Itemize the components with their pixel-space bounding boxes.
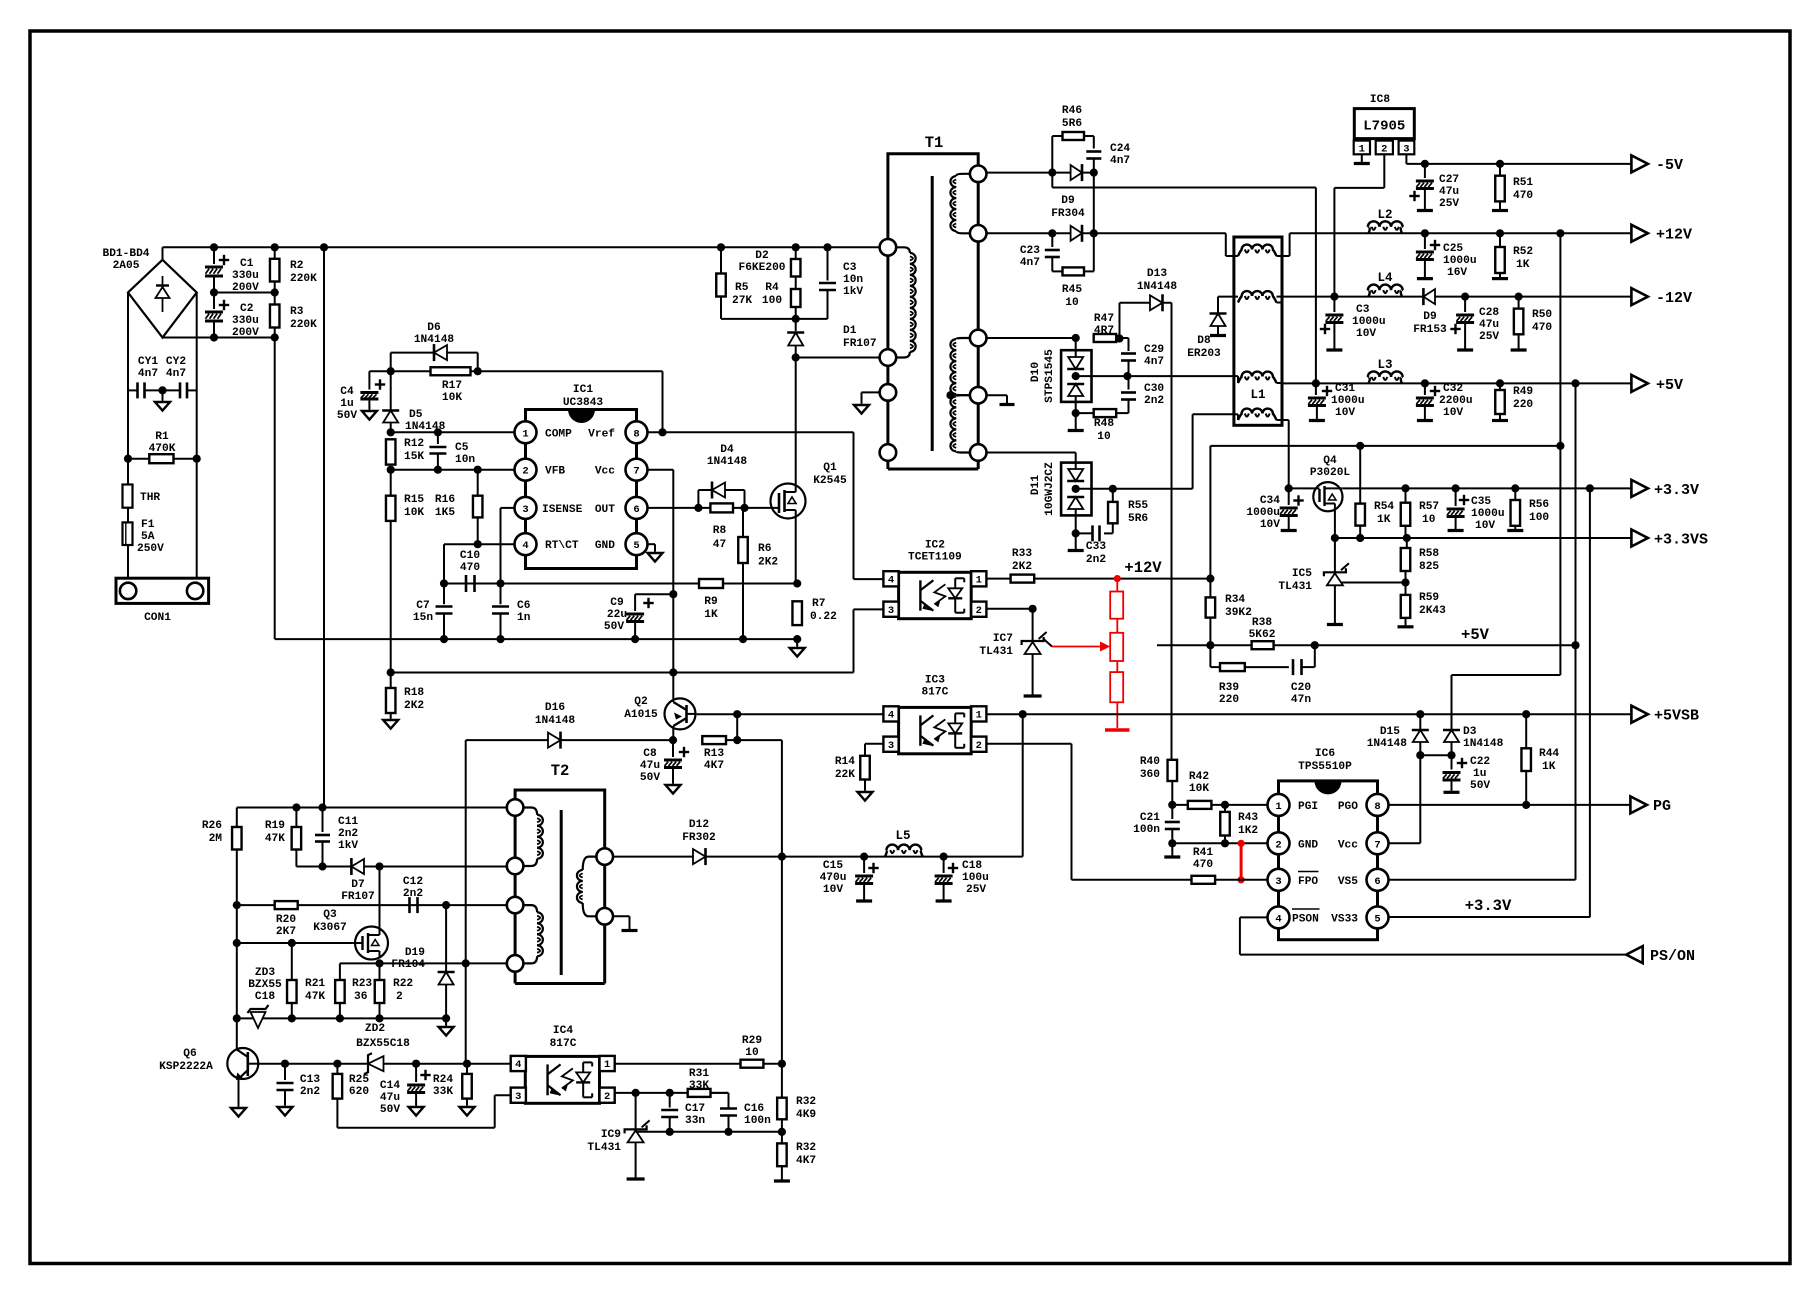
diode D7 FR107 [351,859,364,874]
resistor R38 5K62 [1252,641,1274,649]
svg-text:C7: C7 [416,600,429,612]
svg-text:36: 36 [354,991,368,1003]
svg-text:RT\CT: RT\CT [545,540,579,552]
junction R43 bottom [1221,839,1229,847]
svg-text:COMP: COMP [545,428,572,440]
svg-text:2n2: 2n2 [338,828,358,840]
IC8 pin 1 box [1354,141,1370,155]
svg-text:16V: 16V [1447,267,1467,279]
svg-text:FR107: FR107 [843,338,877,350]
svg-text:C2: C2 [240,303,254,315]
svg-text:R25: R25 [349,1074,369,1086]
inductor L5 [885,850,887,857]
junction +5VSB/R44 [1522,710,1530,718]
red jumper GND to FPO [1238,840,1245,847]
junction pin2/IC7 [1029,605,1037,613]
svg-text:R23: R23 [352,978,372,990]
svg-text:10V: 10V [1260,519,1280,531]
L1 winding 3 [1238,377,1243,384]
junction bus/vertical to T2 area [320,243,328,251]
svg-text:47: 47 [713,539,726,551]
diode D9 FR153 [1423,289,1435,304]
junction R17 line / D5 / D6 left [387,367,395,375]
svg-text:VS33: VS33 [1331,913,1358,925]
wire Q1 source to R7 [795,518,797,584]
svg-text:TCET1109: TCET1109 [908,551,962,563]
wire R39/C20 branch [1209,645,1211,667]
resistor R16 1K5 [477,470,479,496]
svg-text:K3067: K3067 [313,922,347,934]
junction +5VSB/C18 riser [1019,710,1027,718]
svg-text:+3.3V: +3.3V [1654,482,1699,499]
wire +12V tap line y=445.9 [1559,233,1561,675]
resistor R32 4K7 [781,1132,783,1144]
dual diode D11 10GWJ2CZ box [1061,463,1091,516]
svg-text:Vcc: Vcc [595,466,615,478]
svg-text:R56: R56 [1529,499,1549,511]
junction +12V/R52 [1496,229,1504,237]
svg-text:1: 1 [976,710,982,722]
svg-text:10V: 10V [1475,520,1495,532]
wire w3 exit to +5V rail [1277,382,1283,384]
svg-text:1u: 1u [1473,768,1486,780]
T1 sec terminal 4 [970,387,987,404]
inductor L2 [1369,227,1370,234]
junction gnd/C9 [631,635,639,643]
junction D1 output / T1 primary bottom [792,353,800,361]
capacitor C28 47u 25V [1464,297,1466,312]
svg-text:-12V: -12V [1656,290,1692,307]
junction D11 line / R55 [1109,485,1117,493]
wire bridge top to HV bus [162,247,164,259]
svg-text:470: 470 [1532,322,1552,334]
junction bus/R2 [271,243,279,251]
svg-text:10n: 10n [843,274,863,286]
svg-text:10V: 10V [1335,407,1355,419]
svg-text:GND: GND [1298,839,1318,851]
wire Q4 gate riser to IC5 [1334,513,1336,572]
wire Q6 collector to standby line [258,1063,511,1065]
svg-text:330u: 330u [232,270,259,282]
svg-text:50V: 50V [1470,780,1490,792]
capacitor CY1 4n7 [136,382,139,398]
wire +3.3V sense drop to VS33 [1589,488,1591,917]
junction +5Vsense/drop [1571,641,1579,649]
wire C10/R9 line y=584 [444,583,797,585]
capacitor C11 2n2 1kV [322,808,324,833]
junction C10-line/C6/pin3-drop [496,579,504,587]
svg-text:1000u: 1000u [1471,508,1505,520]
svg-text:D8: D8 [1197,335,1211,347]
resistor R42 10K [1188,801,1212,809]
svg-text:10V: 10V [1356,328,1376,340]
junction tap/+12V drop [1556,442,1564,450]
wire R31 to C16 corner [711,1092,729,1094]
wire OUT line y=508 [648,507,772,509]
capacitor C13 2n2 [284,1064,286,1080]
svg-text:K2545: K2545 [813,475,847,487]
resistor R24 33K [466,1064,468,1074]
junction OUT/R8 right/D4 [740,504,748,512]
junction L5 line / C15 [860,853,868,861]
svg-text:IC5: IC5 [1292,568,1312,580]
T2 sec terminal 1 [596,848,613,865]
junction gnd/R7 [793,635,801,643]
svg-text:TL431: TL431 [587,1142,621,1154]
ground bar below D10 [1075,413,1077,429]
junction return/Q3 source [375,959,383,967]
zener ZD2 BZX55C18 [368,1056,384,1071]
wire +12V sense line y=578.6 [986,578,1210,580]
svg-text:R45: R45 [1062,284,1082,296]
svg-text:1: 1 [522,428,528,440]
junction +12V/sense drop [1556,229,1564,237]
capacitor C32 2200u 10V [1424,383,1426,395]
svg-text:C18: C18 [962,860,982,872]
svg-text:+5VSB: +5VSB [1654,708,1699,725]
wire C1/C2 junction link y=292 [214,292,275,294]
svg-text:1N4148: 1N4148 [1463,738,1504,750]
IC6 pin 5 VS33 [1367,906,1389,928]
wire +12V entry jog into L1 [1225,233,1227,256]
IC6 pin 2 GND [1268,832,1290,854]
svg-text:P3020L: P3020L [1310,467,1351,479]
junction gnd/C6 [496,635,504,643]
junction +5V/R49 [1496,379,1504,387]
T2 secondary winding [583,857,605,870]
svg-text:L3: L3 [1377,358,1392,372]
net arrow +5V [1631,375,1648,392]
T2 secondary lower ground [613,915,630,917]
svg-text:CY2: CY2 [166,356,186,368]
wire Q6 emitter to ground [238,1079,240,1107]
svg-text:22u: 22u [607,609,627,621]
resistor R5 27K [720,247,722,273]
svg-text:R33: R33 [1012,548,1032,560]
resistor R3 220K [274,293,276,305]
svg-text:4: 4 [522,540,528,552]
junction line/C14 [412,1060,420,1068]
resistor R41 470 [1192,876,1216,884]
svg-text:2n2: 2n2 [1086,554,1106,566]
svg-text:33n: 33n [685,1115,705,1127]
junction -5V/C27 [1421,160,1429,168]
svg-text:+5V: +5V [1656,377,1683,394]
svg-text:39K2: 39K2 [1225,607,1252,619]
junction D7 line/C11 [318,862,326,870]
wire pin4 corner down to C10 node [443,544,445,583]
svg-text:-5V: -5V [1656,157,1683,174]
IC6 TPS5510P box [1279,781,1378,940]
svg-text:250V: 250V [137,543,164,555]
svg-text:220K: 220K [290,273,317,285]
wire -12V w2 entry [1218,296,1238,298]
svg-text:47u: 47u [640,760,660,772]
wire D9 output jog y=187.5 [1051,173,1053,188]
capacitor C4 1u 50V [368,371,370,389]
capacitor C24 4n7 [1093,136,1095,149]
wire Vref riser to IC2 pin4 [853,432,855,579]
svg-text:2M: 2M [209,833,223,845]
svg-text:C28: C28 [1479,307,1499,319]
junction bus/C3 [823,243,831,251]
wire snubber bottom y=319 [721,318,828,320]
IC6 pin 4 PSON [1268,906,1290,928]
svg-text:L7905: L7905 [1363,119,1405,135]
resistor R49 220 [1499,383,1501,390]
wire Q3 drain riser [379,867,381,929]
IC8 pin 2 box [1376,141,1393,155]
wire IC3 pin3 to R14 [865,743,883,745]
svg-text:Q3: Q3 [323,909,337,921]
resistor R55 5R6 [1112,489,1114,502]
junction +5VSB/R13 riser [733,710,741,718]
svg-text:BZX55C18: BZX55C18 [356,1038,410,1050]
wire +5V rail y=383.4 [1288,382,1631,384]
junction +5Vsense/R34-R39 [1206,641,1214,649]
svg-text:1: 1 [1359,144,1365,156]
svg-text:C34: C34 [1260,495,1280,507]
junction tap2/C23 [1048,229,1056,237]
svg-text:2: 2 [522,466,528,478]
svg-text:220K: 220K [290,319,317,331]
svg-text:620: 620 [349,1086,369,1098]
svg-text:R16: R16 [435,494,455,506]
wire R20/C12 line y=905.1 [237,904,515,906]
svg-text:+12V: +12V [1124,559,1162,577]
junction VFB/C5 [434,466,442,474]
wire HV bus y=247 [163,246,888,248]
svg-text:Q1: Q1 [823,462,837,474]
svg-text:+5V: +5V [1461,626,1490,644]
junction line/aux riser/R24 [463,1060,471,1068]
svg-text:47u: 47u [1479,319,1499,331]
resistor R51 470 [1499,164,1501,176]
svg-text:1N4148: 1N4148 [414,334,455,346]
wire IC9 cathode line y=1131.8 [636,1131,782,1133]
svg-text:R24: R24 [433,1074,453,1086]
thermistor THR [123,485,133,508]
junction bus/R5 loop [717,243,725,251]
svg-text:D6: D6 [427,322,441,334]
svg-text:6: 6 [1374,876,1380,888]
svg-text:7: 7 [1374,839,1380,851]
net arrow -5V [1631,155,1648,172]
capacitor C10 470 [465,575,468,592]
resistor R39 220 [1220,663,1245,671]
svg-text:R8: R8 [713,525,727,537]
junction C12 line / D19 riser [442,901,450,909]
junction ZD3 line/R21 [288,1014,296,1022]
wire +3.3VS line y=538 [1335,537,1632,539]
T1 sec terminal 1 [970,166,987,183]
svg-text:VFB: VFB [545,466,565,478]
junction +5V/D9out riser/C31 [1312,379,1320,387]
optocoupler IC4 817C box [525,1056,599,1103]
resistor R20 2K7 [275,901,298,909]
diode D15 1N4148 [1419,714,1421,729]
junction bus/C1 [210,243,218,251]
IC1 pin 4 RT\CT [515,533,537,555]
svg-text:25V: 25V [1479,331,1499,343]
IC1 pin 2 VFB [515,459,537,481]
svg-text:10: 10 [1065,297,1079,309]
wire VFB line y=470 [391,469,516,471]
svg-text:C16: C16 [744,1103,764,1115]
svg-text:330u: 330u [232,315,259,327]
svg-text:C12: C12 [403,876,423,888]
IC6 pin 7 Vcc [1367,832,1389,854]
junction D11 anode / C33 [1072,529,1080,537]
junction R58/R59/IC5 ref [1401,578,1409,586]
svg-text:R55: R55 [1128,500,1148,512]
wire D11 mid line y=488.8 [1076,488,1193,490]
svg-text:3: 3 [1403,144,1409,156]
svg-text:KSP2222A: KSP2222A [159,1061,213,1073]
svg-text:50V: 50V [337,410,357,422]
svg-text:C24: C24 [1110,143,1130,155]
svg-text:Q2: Q2 [634,696,648,708]
junction VFB/R12/R15 [387,466,395,474]
svg-text:IC2: IC2 [925,539,945,551]
IC2 pin 3 box [883,602,898,617]
resistor R22 2 [379,963,381,980]
T1 secondary winding 3 [956,395,978,396]
svg-text:C22: C22 [1470,756,1490,768]
resistor R50 470 [1518,297,1520,309]
svg-text:8: 8 [1374,801,1380,813]
junction L5 line / R29 drop [778,853,786,861]
junction tap1/R46 loop [1048,169,1056,177]
wire primary ground line y=639 [275,638,798,640]
svg-text:FPO: FPO [1298,876,1318,888]
wire Vref line y=431.5 to IC2 riser [648,431,854,433]
resistor R54 1K [1355,504,1365,526]
svg-text:220: 220 [1513,399,1533,411]
svg-text:47n: 47n [1291,694,1311,706]
svg-text:4n7: 4n7 [1020,257,1040,269]
wire ZD3 line y=1018.4 [237,1017,446,1019]
diode D13 1N4148 branch [1119,303,1121,339]
inductor L1 box [1234,237,1282,425]
red potentiometer on +12V divider [1114,575,1121,582]
svg-text:TL431: TL431 [1278,581,1312,593]
resistor R56 100 [1514,488,1516,500]
resistor R6 2K2 [743,507,745,509]
svg-text:50V: 50V [604,621,624,633]
IC3 pin 2 box [971,737,986,752]
svg-text:R59: R59 [1419,592,1439,604]
svg-text:4n7: 4n7 [1144,356,1164,368]
svg-text:Q4: Q4 [1323,455,1337,467]
junction OUT/D4 left [694,504,702,512]
svg-text:33K: 33K [433,1086,453,1098]
diode D16 1N4148 [466,739,552,741]
svg-text:R32: R32 [796,1142,816,1154]
wire COMP line y=432 [391,431,516,433]
resistor R59 2K43 [1405,583,1407,595]
junction Q2 collector/C8/D16 [669,736,677,744]
ground arrow at R7 [796,639,798,646]
junction gnd/C7 [440,635,448,643]
wire PGO to PG arrow [1389,804,1631,806]
wire FPO line y=880 [1072,879,1268,881]
junction C10-line/C7/pin4-drop [440,579,448,587]
svg-text:D13: D13 [1147,268,1167,280]
svg-text:3: 3 [1275,876,1281,888]
svg-text:OUT: OUT [595,504,615,516]
svg-text:50V: 50V [380,1104,400,1116]
svg-text:D4: D4 [720,444,734,456]
wire +12V rail y=233.3 [1290,232,1632,234]
junction return/aux riser [462,959,470,967]
svg-text:R4: R4 [765,282,779,294]
junction R42/R43 top [1221,801,1229,809]
svg-text:C10: C10 [460,550,480,562]
svg-text:3: 3 [515,1091,521,1103]
svg-text:L4: L4 [1377,271,1393,285]
svg-text:F1: F1 [141,519,155,531]
wire IC8 pin2 to -12V rail [1383,154,1385,188]
junction top line/R19 [292,803,300,811]
IC8 pin1 ground [1361,154,1363,162]
junction ZD3 line/R22 [375,1014,383,1022]
junction -12V/C28 [1461,293,1469,301]
svg-text:F6KE200: F6KE200 [739,262,786,274]
svg-text:2: 2 [976,605,982,617]
svg-text:R44: R44 [1539,748,1559,760]
labels IC7 ref to red pot wiper [1044,639,1052,647]
junction R29/R32 divider [778,1060,786,1068]
svg-text:3: 3 [522,504,528,516]
svg-text:50V: 50V [640,772,660,784]
svg-text:+12V: +12V [1656,227,1692,244]
svg-text:R40: R40 [1140,756,1160,768]
wire bridge AC right leg [196,293,198,579]
svg-text:1N4148: 1N4148 [1367,738,1408,750]
wire +5V sense line y=645.2 [1157,644,1576,646]
svg-text:27K: 27K [732,295,752,307]
svg-text:ZD2: ZD2 [365,1023,385,1035]
svg-text:C14: C14 [380,1080,400,1092]
svg-text:100n: 100n [1133,824,1160,836]
svg-text:R43: R43 [1238,812,1258,824]
svg-text:3: 3 [888,740,894,752]
diode D3 1N4148 [1451,675,1453,729]
ground below CY caps [162,390,164,400]
svg-text:R29: R29 [742,1035,762,1047]
capacitor C22 1u 50V [1451,755,1453,769]
wire ISENSE pin3 jog [501,507,517,509]
wire IC3 pin2 to FPO riser [986,743,1071,745]
svg-text:R2: R2 [290,260,304,272]
IC4 pin 2 box [600,1088,615,1103]
T1 sec terminal 3 [970,330,987,347]
T1 primary terminal top [880,239,897,256]
IC3 pin 1 box [971,706,986,721]
junction C16 bottom [724,1128,732,1136]
junction Vref/R17-line riser [658,428,666,436]
junction L5 line / C18 [940,853,948,861]
svg-text:1N4148: 1N4148 [707,456,748,468]
svg-text:VS5: VS5 [1338,876,1358,888]
L1 winding 4 [1238,414,1243,421]
wire bridge bottom y=337 [163,337,275,339]
svg-text:UC3843: UC3843 [563,397,604,409]
svg-text:+3.3V: +3.3V [1465,897,1512,915]
diode D19 FR104 [445,905,447,971]
junction VFB/R16 [474,466,482,474]
